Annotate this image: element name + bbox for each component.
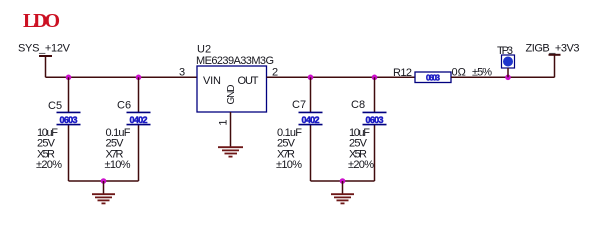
svg-text:±20%: ±20%	[36, 159, 62, 171]
wire C7 top	[310, 77, 312, 112]
svg-text:SYS_+12V: SYS_+12V	[18, 43, 71, 55]
wire bottom rail C7-C8	[311, 180, 375, 182]
wire bottom rail C5-C6	[69, 180, 139, 182]
svg-text:0402: 0402	[130, 115, 148, 125]
svg-text:0402: 0402	[302, 115, 320, 125]
ground right	[331, 194, 354, 203]
svg-text:C5: C5	[48, 100, 62, 112]
capacitor C8	[348, 99, 387, 171]
svg-text:1: 1	[218, 119, 230, 125]
svg-text:C7: C7	[292, 99, 306, 111]
svg-text:±10%: ±10%	[276, 159, 302, 171]
ground U2	[218, 147, 243, 156]
node junction C6	[136, 75, 142, 81]
wire C5 top	[68, 77, 70, 112]
power flag ZIGB_+3V3	[526, 43, 580, 78]
svg-text:U2: U2	[197, 44, 211, 56]
wire ground stub right	[342, 181, 344, 194]
svg-text:0603: 0603	[366, 115, 384, 125]
capacitor C5	[36, 100, 81, 171]
wire U2 out to R12	[267, 76, 416, 78]
node junction C8	[372, 75, 378, 81]
test point TP3	[497, 45, 515, 77]
svg-text:OUT: OUT	[238, 75, 259, 87]
node junction ground right	[340, 178, 346, 184]
svg-text:±20%: ±20%	[348, 159, 374, 171]
wire C7 bottom	[310, 125, 312, 181]
svg-text:ZIGB_+3V3: ZIGB_+3V3	[526, 43, 580, 55]
capacitor C6	[105, 100, 151, 172]
wire C6 top	[138, 77, 140, 112]
power flag SYS_+12V	[18, 43, 71, 78]
svg-text:ME6239A33M3G: ME6239A33M3G	[196, 55, 274, 67]
svg-text:0603: 0603	[60, 115, 78, 125]
svg-text:C8: C8	[351, 99, 365, 111]
wire ground stub left	[103, 181, 105, 194]
capacitor C7	[276, 99, 323, 171]
wire C8 top	[374, 77, 376, 112]
svg-text:±10%: ±10%	[105, 159, 131, 171]
wire U2 ground	[230, 112, 232, 147]
op-amp U2 regulator box	[196, 44, 274, 113]
svg-text:R12: R12	[393, 67, 412, 79]
wire C5 bottom	[68, 125, 70, 181]
svg-text:VIN: VIN	[203, 75, 221, 87]
wire C8 bottom	[374, 125, 376, 181]
svg-text:C6: C6	[117, 100, 131, 112]
node junction C5	[66, 75, 72, 81]
svg-text:0603: 0603	[426, 74, 441, 83]
wire R12 to ZIGB corner	[451, 76, 555, 78]
resistor R12	[393, 67, 492, 83]
svg-text:3: 3	[179, 67, 185, 79]
wire C6 bottom	[138, 125, 140, 181]
wire main bus to U2 pin 3	[46, 76, 198, 78]
svg-text:GND: GND	[226, 85, 237, 105]
node junction C7	[308, 75, 314, 81]
ground left	[92, 194, 115, 203]
node junction TP3	[505, 75, 511, 81]
svg-text:LDO: LDO	[23, 10, 60, 32]
node junction ground left	[101, 178, 107, 184]
